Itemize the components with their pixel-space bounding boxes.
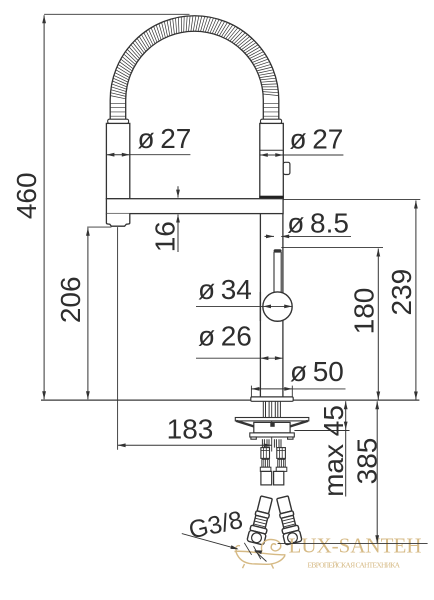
- dimension o8.5: [265, 235, 275, 237]
- svg-text:LUX-SANTEH: LUX-SANTEH: [289, 534, 422, 558]
- svg-text:206: 206: [55, 276, 86, 323]
- svg-text:239: 239: [386, 269, 417, 316]
- svg-text:385: 385: [352, 438, 383, 485]
- dimension o27 right: [260, 154, 284, 156]
- watermark bathtub logo: [235, 540, 286, 569]
- dimension o27 left: [106, 154, 129, 156]
- dimension o26: [196, 357, 283, 359]
- inner hose tube o8.5: [274, 249, 282, 294]
- dimension max45 extension line: [294, 430, 349, 432]
- dimension o50: [251, 388, 292, 390]
- dimension 239 extension line: [283, 198, 420, 200]
- G3/8 leader line: [182, 534, 238, 549]
- svg-text:ø 50: ø 50: [290, 356, 344, 387]
- base flange o50: [251, 397, 293, 401]
- dimension 16: [177, 186, 179, 197]
- left supply hose: [247, 495, 275, 545]
- mounting nut: [254, 422, 290, 433]
- dimension 180: [377, 249, 379, 400]
- svg-text:ø 8.5: ø 8.5: [287, 207, 349, 238]
- mounting shank: [263, 401, 280, 417]
- dimension 180 extension line: [281, 246, 383, 248]
- spout outlet block: [106, 214, 129, 227]
- right collar: [261, 119, 282, 123]
- lower plate: [250, 433, 294, 439]
- dimension 206 extension line: [87, 226, 111, 228]
- supply studs: [262, 439, 281, 447]
- dimension 206: [87, 228, 89, 399]
- svg-text:ø 27: ø 27: [290, 124, 344, 155]
- hose right leg: [263, 100, 279, 119]
- svg-text:ø 26: ø 26: [198, 320, 252, 351]
- dimension 183 extension line: [117, 227, 119, 450]
- right supply hose: [274, 495, 302, 545]
- faucet body column: [260, 214, 283, 397]
- svg-text:ø 34: ø 34: [198, 274, 252, 305]
- G3/8 tick marks: [244, 543, 251, 555]
- svg-text:ø 27: ø 27: [138, 123, 192, 154]
- dimension o34: [196, 305, 292, 307]
- body line across ball: [259, 292, 261, 321]
- hose nuts: [261, 471, 284, 485]
- spring hose arch: [110, 16, 279, 100]
- mounting washer: [235, 418, 308, 427]
- svg-text:ЕВРОПЕЙСКАЯ САНТЕХНИКА: ЕВРОПЕЙСКАЯ САНТЕХНИКА: [308, 560, 401, 569]
- center line / 183 extension: [271, 401, 273, 451]
- dimension 385 bottom extension line: [278, 543, 428, 545]
- dimension 239: [415, 201, 417, 400]
- dimension 183: [118, 444, 272, 446]
- right body upper cylinder: [260, 123, 284, 198]
- dark ring band: [259, 196, 283, 201]
- threaded sections: [260, 459, 287, 471]
- countertop reference line: [41, 399, 419, 401]
- svg-text:183: 183: [167, 414, 214, 445]
- dimension 460: [43, 15, 45, 399]
- arrowheads: [42, 15, 418, 554]
- left collar: [108, 119, 129, 123]
- hose left leg: [110, 100, 126, 119]
- dimension max 45: [345, 401, 347, 496]
- svg-text:460: 460: [11, 172, 42, 219]
- horizontal spout arm: [106, 199, 283, 214]
- svg-text:max 45: max 45: [318, 405, 349, 497]
- hose fittings: [261, 448, 286, 459]
- dimension 460 top extension line: [44, 13, 189, 15]
- svg-text:180: 180: [349, 288, 380, 335]
- svg-text:16: 16: [150, 221, 181, 252]
- dimension 385: [376, 401, 378, 543]
- lever handle knob: [283, 162, 290, 174]
- ball joint o34: [263, 292, 292, 321]
- dimension o50 extension lines: [250, 386, 252, 397]
- left spout holder cylinder: [106, 123, 129, 198]
